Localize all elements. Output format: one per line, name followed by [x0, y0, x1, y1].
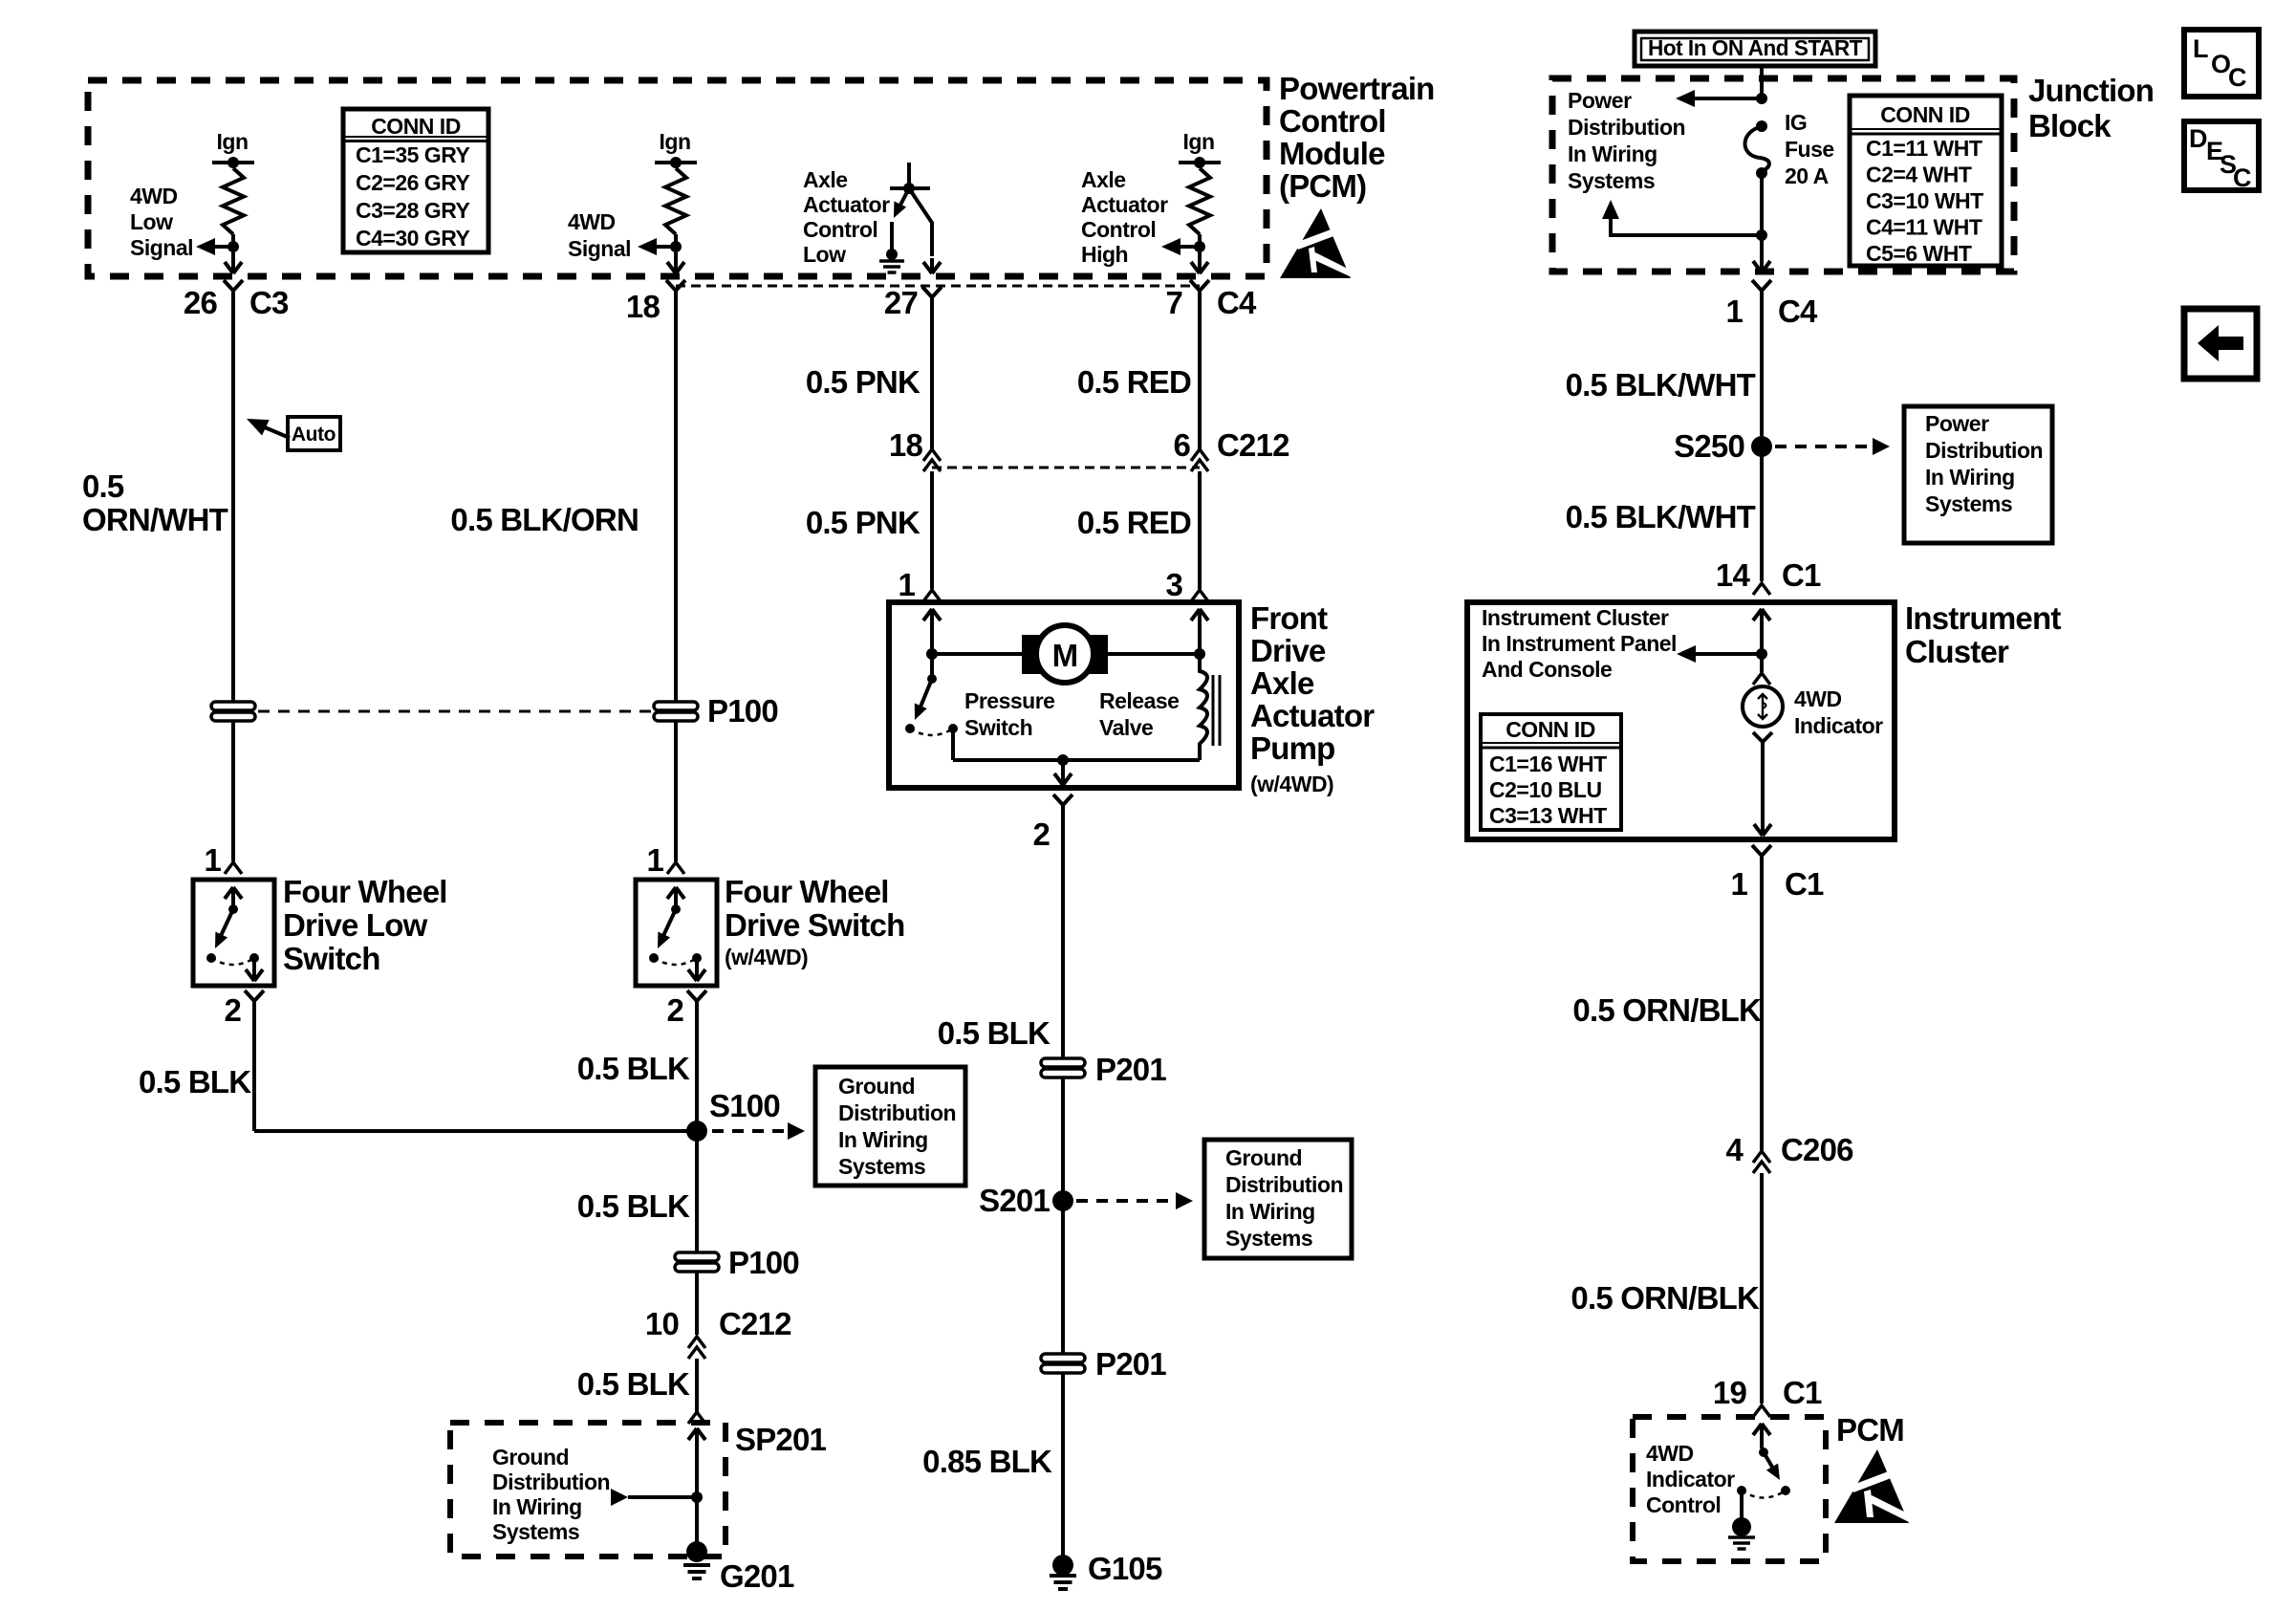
svg-text:0.5 BLK: 0.5 BLK	[577, 1188, 690, 1224]
Front Drive Axle Actuator Pump box	[889, 602, 1239, 788]
svg-text:Distribution: Distribution	[492, 1469, 610, 1494]
wire P201 to S201	[1061, 1078, 1065, 1195]
svg-text:0.5 BLK: 0.5 BLK	[577, 1366, 690, 1402]
svg-text:0.85 BLK: 0.85 BLK	[922, 1444, 1052, 1479]
wire 0.5 PNK (lower)	[930, 471, 934, 589]
svg-text:C3=13 WHT: C3=13 WHT	[1489, 803, 1607, 828]
svg-text:Instrument Cluster: Instrument Cluster	[1482, 605, 1669, 630]
svg-text:C2=26 GRY: C2=26 GRY	[356, 170, 469, 195]
svg-text:Four Wheel: Four Wheel	[725, 874, 889, 909]
junction lower dot	[1756, 229, 1767, 241]
svg-text:In Wiring: In Wiring	[1925, 465, 2015, 490]
grommet P100 (col1)	[211, 702, 255, 710]
svg-text:Distribution: Distribution	[1925, 438, 2043, 463]
svg-text:C3=10 WHT: C3=10 WHT	[1866, 188, 1983, 213]
svg-text:C: C	[2233, 163, 2252, 192]
svg-text:Block: Block	[2028, 108, 2112, 143]
svg-text:C4=11 WHT: C4=11 WHT	[1866, 215, 1982, 240]
svg-text:Systems: Systems	[1225, 1226, 1312, 1251]
driver Low: right leg	[909, 188, 932, 256]
svg-text:Ign: Ign	[1183, 129, 1215, 154]
svg-text:Four Wheel: Four Wheel	[283, 874, 447, 909]
Hot In ON And START box	[1635, 32, 1875, 66]
svg-text:3: 3	[1165, 567, 1182, 602]
SP201 dashed box	[450, 1423, 726, 1557]
svg-text:S250: S250	[1674, 428, 1744, 464]
svg-text:G105: G105	[1088, 1551, 1162, 1586]
connector chevron pin1 (pump)	[923, 590, 941, 601]
4wd switch: contact left dot	[649, 953, 659, 963]
motor M1 pump motor	[1022, 635, 1042, 674]
svg-text:Module: Module	[1279, 136, 1385, 171]
svg-text:Actuator: Actuator	[1250, 698, 1375, 733]
resistor 4WD Low Signal pull-up	[223, 168, 244, 234]
CONN ID table (PCM)	[343, 109, 488, 252]
svg-text:D: D	[2189, 124, 2208, 153]
pin 26 output arrow (col1)	[225, 252, 242, 273]
4wd switch: output arrow	[695, 958, 699, 975]
S250 dashed reference arrow	[1775, 445, 1869, 448]
svg-text:Instrument: Instrument	[1905, 600, 2061, 636]
DESC legend box	[2184, 121, 2259, 190]
svg-text:Actuator: Actuator	[1081, 192, 1168, 217]
driver Low: left leg	[890, 222, 894, 250]
node junction dot (col4)	[1194, 241, 1205, 252]
Ign rail (col4)	[1179, 161, 1221, 164]
lamp 4WD indicator	[1743, 686, 1783, 727]
svg-text:18: 18	[626, 289, 661, 324]
svg-text:Drive: Drive	[1250, 633, 1326, 668]
svg-text:1: 1	[1725, 294, 1743, 329]
S100 dashed reference arrow	[712, 1129, 786, 1133]
svg-text:1: 1	[204, 842, 221, 878]
svg-text:C: C	[2228, 63, 2247, 92]
connector pin 18 C4 female	[666, 280, 685, 299]
svg-text:Pump: Pump	[1250, 730, 1334, 766]
pressure switch: stem	[930, 654, 934, 679]
low switch: common dot	[228, 904, 238, 914]
svg-text:C5=6 WHT: C5=6 WHT	[1866, 241, 1972, 266]
connector chevron pin1 (4wd switch)	[667, 862, 684, 874]
svg-text:Fuse: Fuse	[1785, 137, 1834, 162]
4wd indicator control: common dot	[1759, 1448, 1768, 1457]
connector C212 chevrons (col4)	[1191, 449, 1208, 461]
svg-text:C206: C206	[1781, 1132, 1853, 1167]
driver Low: internal ground	[879, 259, 904, 263]
ground G105	[1052, 1555, 1073, 1576]
connector C212 chevrons (col2)	[688, 1337, 705, 1348]
svg-text:Systems: Systems	[1568, 168, 1655, 193]
wire col2 to switch	[674, 720, 678, 861]
SP201 reference arrow	[611, 1489, 628, 1506]
4wd switch: arm	[661, 909, 676, 940]
svg-text:C2=10 BLU: C2=10 BLU	[1489, 777, 1602, 802]
Ign rail (col1)	[212, 161, 254, 164]
svg-text:C212: C212	[1217, 427, 1289, 463]
low switch: output arrow	[252, 958, 256, 975]
svg-text:Drive Switch: Drive Switch	[725, 907, 904, 943]
svg-text:Signal: Signal	[130, 235, 193, 260]
svg-text:Switch: Switch	[964, 715, 1032, 740]
svg-text:Power: Power	[1568, 88, 1632, 113]
svg-text:4: 4	[1725, 1132, 1744, 1167]
svg-text:P100: P100	[728, 1245, 799, 1280]
svg-text:0.5 BLK: 0.5 BLK	[577, 1051, 690, 1086]
driver Low: crossbar	[890, 186, 930, 190]
wire 0.5 BLK (col2 lower)	[695, 1359, 699, 1412]
power distribution branch arrow	[1694, 97, 1762, 100]
wire 0.5 BLK (pump)	[1061, 814, 1065, 1058]
svg-text:26: 26	[184, 285, 218, 320]
connector pin 26 C3 female	[224, 280, 243, 299]
svg-text:Ground: Ground	[1225, 1145, 1302, 1170]
svg-text:Low: Low	[130, 209, 173, 234]
svg-text:Powertrain: Powertrain	[1279, 71, 1435, 106]
cluster entry arrow	[1753, 609, 1770, 620]
pin 27 output arrow	[923, 258, 941, 273]
fuse IG 20A	[1756, 120, 1767, 132]
wire 0.5 BLK (col1)	[252, 1010, 256, 1131]
svg-text:2: 2	[224, 992, 241, 1028]
cluster exit arrow	[1754, 824, 1771, 836]
grommet P100 (lower)	[675, 1252, 719, 1261]
4wd indicator control: ground stem	[1740, 1491, 1744, 1520]
svg-text:S100: S100	[709, 1088, 780, 1123]
svg-text:C3: C3	[249, 285, 289, 320]
connector chevron 19 C1	[1753, 1405, 1770, 1417]
svg-text:P201: P201	[1095, 1346, 1166, 1382]
ground (PCM internal)	[1728, 1535, 1755, 1539]
connector pin 2 female (low switch)	[245, 991, 264, 1010]
svg-text:CONN ID: CONN ID	[1505, 717, 1595, 742]
low switch: contact left dot	[206, 953, 216, 963]
pressure switch: right contact dot	[948, 724, 958, 733]
svg-text:Control: Control	[1279, 103, 1386, 139]
wire 0.5 BLK/WHT (upper)	[1760, 299, 1764, 436]
svg-text:Axle: Axle	[803, 167, 848, 192]
pin 7 output arrow	[1191, 252, 1208, 273]
svg-text:Control: Control	[803, 217, 877, 242]
svg-text:ORN/WHT: ORN/WHT	[82, 502, 228, 537]
pressure switch: arm	[919, 679, 932, 711]
low switch: input arrow	[225, 887, 242, 899]
4WD Signal branch arrow	[657, 245, 676, 249]
wire 0.5 RED (lower)	[1198, 471, 1202, 589]
connector chevron pin1 (low switch)	[225, 862, 242, 874]
release valve coil	[1200, 654, 1207, 760]
svg-text:In Wiring: In Wiring	[1568, 142, 1657, 166]
svg-text:7: 7	[1165, 285, 1182, 320]
wire 0.5 ORN/WHT (col1)	[231, 299, 235, 701]
driver Low: left leg arrow	[898, 188, 909, 210]
Four Wheel Drive Switch box	[636, 880, 717, 986]
release valve core bars	[1212, 675, 1215, 746]
svg-text:4WD: 4WD	[1794, 686, 1842, 711]
pressure switch: dashed arc	[910, 729, 953, 735]
pin 18 output arrow (col2)	[667, 252, 684, 273]
wire hot feed	[1760, 66, 1764, 98]
svg-text:0.5 PNK: 0.5 PNK	[806, 505, 921, 540]
wire 0.5 ORN/BLK (upper)	[1760, 864, 1764, 1150]
connector pin 1 C1 female (cluster)	[1752, 845, 1771, 864]
svg-text:0.5 BLK/WHT: 0.5 BLK/WHT	[1566, 499, 1756, 534]
4wd indicator control: dashed arc	[1742, 1491, 1786, 1498]
svg-text:Switch: Switch	[283, 941, 380, 976]
svg-text:Low: Low	[803, 242, 846, 267]
svg-text:0.5 RED: 0.5 RED	[1077, 364, 1191, 400]
node motor rail dots	[926, 648, 938, 660]
svg-text:0.5 BLK: 0.5 BLK	[938, 1015, 1051, 1051]
4wd indicator control: arm	[1764, 1452, 1776, 1473]
resistor Axle Actuator Control High	[1189, 168, 1210, 234]
svg-text:10: 10	[645, 1306, 679, 1341]
svg-text:Control: Control	[1081, 217, 1156, 242]
svg-text:C2=4 WHT: C2=4 WHT	[1866, 163, 1972, 187]
wire SP201 to G201	[695, 1497, 699, 1545]
svg-text:0.5 ORN/BLK: 0.5 ORN/BLK	[1572, 992, 1762, 1028]
svg-text:Control: Control	[1646, 1492, 1721, 1517]
wire col1 to S100	[254, 1129, 699, 1133]
connector pin 2 female (pump)	[1053, 795, 1072, 814]
pump pin2 exit arrow	[1061, 760, 1065, 776]
low switch: dashed throw arc	[211, 958, 254, 965]
4wd indicator control: left contact dot	[1737, 1486, 1746, 1495]
wire P100 to C212 (col2)	[695, 1272, 699, 1335]
node junction dot (col1)	[227, 241, 239, 252]
CONN ID table (junction block)	[1850, 96, 2002, 266]
SP201 entry arrow	[688, 1428, 705, 1440]
pump pin3 entry arrow	[1191, 609, 1208, 620]
svg-text:IG: IG	[1785, 110, 1807, 135]
svg-text:In Wiring: In Wiring	[838, 1127, 928, 1152]
svg-text:S201: S201	[979, 1183, 1050, 1218]
svg-text:M: M	[1052, 638, 1078, 673]
svg-text:0.5 PNK: 0.5 PNK	[806, 364, 921, 400]
svg-text:Signal: Signal	[568, 236, 631, 261]
4wd indicator control: entry arrow	[1753, 1424, 1770, 1435]
svg-text:0.5: 0.5	[82, 468, 124, 504]
connector SP201 chevron	[688, 1412, 705, 1424]
svg-text:(w/4WD): (w/4WD)	[1250, 772, 1333, 796]
lamp output female	[1753, 732, 1772, 742]
svg-text:1: 1	[1730, 866, 1747, 902]
svg-text:In Wiring: In Wiring	[492, 1494, 582, 1519]
svg-text:Systems: Systems	[492, 1519, 579, 1544]
svg-text:C1=11 WHT: C1=11 WHT	[1866, 136, 1982, 161]
svg-text:2: 2	[666, 992, 683, 1028]
grommet P201 (upper)	[1041, 1058, 1085, 1067]
svg-text:C4=30 GRY: C4=30 GRY	[356, 226, 469, 250]
svg-text:0.5 BLK: 0.5 BLK	[139, 1064, 251, 1099]
svg-text:19: 19	[1713, 1375, 1747, 1410]
svg-text:Pressure: Pressure	[964, 688, 1054, 713]
junction pin1 output arrow	[1760, 235, 1764, 269]
junction return branch	[1611, 218, 1762, 235]
grommet P201 (lower)	[1041, 1354, 1085, 1362]
connector C4 boundary dashed line	[676, 285, 1200, 288]
connector pin 7 C4 female	[1190, 280, 1209, 299]
svg-text:0.5 RED: 0.5 RED	[1077, 505, 1191, 540]
svg-text:P201: P201	[1095, 1052, 1166, 1087]
svg-text:C3=28 GRY: C3=28 GRY	[356, 198, 469, 223]
wire 0.5 PNK (upper)	[930, 306, 934, 449]
svg-text:0.5 ORN/BLK: 0.5 ORN/BLK	[1570, 1280, 1760, 1316]
connector chevron 14 C1	[1753, 583, 1770, 595]
wire fuse to pin1	[1760, 173, 1764, 235]
grommet P100 (col2)	[654, 702, 698, 710]
svg-text:Axle: Axle	[1081, 167, 1126, 192]
svg-text:In Wiring: In Wiring	[1225, 1199, 1315, 1224]
svg-text:C1: C1	[1783, 1375, 1822, 1410]
svg-text:C1=16 WHT: C1=16 WHT	[1489, 751, 1607, 776]
svg-text:C1: C1	[1785, 866, 1824, 902]
Axle Actuator Control High branch arrow	[1180, 245, 1200, 249]
connector pin 2 female (4wd switch)	[687, 991, 706, 1010]
svg-text:C4: C4	[1217, 285, 1257, 320]
connector pin 1 C4 female (junction)	[1752, 280, 1771, 299]
svg-text:C1: C1	[1782, 557, 1821, 593]
4WD Low Signal branch arrow	[214, 245, 233, 249]
svg-text:14: 14	[1716, 557, 1751, 593]
wire col1 to switch	[231, 720, 235, 861]
svg-text:Indicator: Indicator	[1794, 713, 1883, 738]
S201 dashed reference arrow	[1076, 1199, 1172, 1203]
driver Low: top stub	[907, 163, 911, 188]
svg-text:27: 27	[884, 285, 918, 320]
connector C212 boundary dashed	[932, 467, 1200, 469]
svg-text:C1=35 GRY: C1=35 GRY	[356, 142, 469, 167]
svg-text:Ign: Ign	[217, 129, 249, 154]
junction feed dot	[1756, 93, 1767, 104]
connector chevron pin3 (pump)	[1191, 590, 1208, 601]
back arrow legend box	[2184, 309, 2257, 379]
pump pin2 junction dot	[1057, 754, 1069, 766]
svg-text:Cluster: Cluster	[1905, 634, 2009, 669]
ESD sensitive symbol (bottom PCM)	[1834, 1449, 1909, 1523]
svg-text:18: 18	[889, 427, 923, 463]
svg-text:6: 6	[1173, 427, 1190, 463]
node junction dot (col2)	[670, 241, 682, 252]
svg-text:Ground: Ground	[838, 1074, 915, 1099]
wire 0.85 BLK	[1061, 1373, 1065, 1556]
svg-text:Ign: Ign	[660, 129, 691, 154]
splice S201	[1052, 1190, 1073, 1211]
svg-text:In Instrument Panel: In Instrument Panel	[1482, 631, 1677, 656]
resistor 4WD Signal pull-up	[665, 168, 686, 234]
svg-text:0.5 BLK/WHT: 0.5 BLK/WHT	[1566, 367, 1756, 403]
svg-text:(w/4WD): (w/4WD)	[725, 945, 808, 969]
svg-text:Axle: Axle	[1250, 665, 1314, 701]
splice S250	[1751, 436, 1772, 457]
4wd indicator control: ground dot	[1732, 1517, 1751, 1536]
wire 0.5 BLK/WHT (lower)	[1760, 446, 1764, 581]
wire motor rail	[932, 652, 1022, 656]
svg-text:C4: C4	[1778, 294, 1818, 329]
Auto callout box	[288, 417, 340, 450]
svg-text:2: 2	[1032, 816, 1050, 852]
wire 0.5 BLK/ORN (col2)	[674, 299, 678, 701]
wire 0.5 BLK (col2 mid)	[695, 1131, 699, 1252]
pump pin1 entry arrow	[923, 609, 941, 620]
low switch: arm	[219, 909, 233, 940]
wire resistor to node (col4)	[1198, 234, 1202, 247]
dashed link P100 grommets	[258, 710, 651, 713]
svg-text:Ground: Ground	[492, 1445, 569, 1469]
svg-text:CONN ID: CONN ID	[1880, 102, 1970, 127]
svg-text:0.5 BLK/ORN: 0.5 BLK/ORN	[450, 502, 639, 537]
LOC legend box	[2184, 30, 2259, 97]
svg-text:1: 1	[898, 567, 915, 602]
connector C212 chevrons (col3)	[923, 449, 941, 461]
SP201 junction dot	[691, 1491, 703, 1503]
svg-text:Power: Power	[1925, 411, 1989, 436]
wire S201 to P201	[1061, 1201, 1065, 1354]
Ground Distribution callout box (S201)	[1204, 1140, 1352, 1258]
svg-text:PCM: PCM	[1836, 1412, 1904, 1448]
svg-text:4WD: 4WD	[568, 209, 616, 234]
CONN ID table (cluster)	[1481, 714, 1621, 830]
cluster lamp feed chevron	[1760, 654, 1764, 672]
Junction Block dashed box	[1552, 78, 2014, 272]
Ign rail (col2)	[655, 161, 697, 164]
wire 0.5 BLK (col2 upper)	[695, 1010, 699, 1131]
Instrument Cluster box	[1467, 602, 1895, 839]
svg-text:Junction: Junction	[2028, 73, 2154, 108]
pressure switch: left contact dot	[905, 724, 915, 733]
Auto callout arrow	[265, 427, 290, 438]
svg-text:Systems: Systems	[838, 1154, 925, 1179]
ground G201	[686, 1541, 707, 1562]
svg-text:Valve: Valve	[1099, 715, 1153, 740]
wire resistor to node (col2)	[674, 234, 678, 247]
wire resistor to node (col1)	[231, 234, 235, 247]
ESD sensitive symbol (PCM)	[1280, 208, 1351, 278]
4wd switch: contact right dot	[692, 953, 702, 963]
svg-text:SP201: SP201	[735, 1422, 827, 1457]
svg-text:C212: C212	[719, 1306, 791, 1341]
PCM dashed box (bottom)	[1633, 1417, 1826, 1561]
connector C206 chevrons	[1753, 1151, 1770, 1163]
svg-text:Indicator: Indicator	[1646, 1467, 1735, 1491]
Four Wheel Drive Low Switch box	[193, 880, 274, 986]
4wd switch: common dot	[671, 904, 681, 914]
svg-text:Release: Release	[1099, 688, 1179, 713]
svg-text:Auto: Auto	[292, 424, 336, 446]
connector pin 27 C4 female	[922, 287, 942, 306]
Power Distribution callout box (S250)	[1904, 406, 2052, 543]
wire 0.5 ORN/BLK (lower)	[1760, 1173, 1764, 1404]
svg-text:CONN ID: CONN ID	[371, 114, 461, 139]
svg-text:High: High	[1081, 242, 1128, 267]
4wd switch: input arrow	[667, 887, 684, 899]
wire 0.5 RED (upper)	[1198, 299, 1202, 449]
svg-text:4WD: 4WD	[130, 184, 178, 208]
svg-text:G201: G201	[720, 1558, 794, 1594]
cluster internal branch arrow	[1695, 652, 1762, 656]
svg-text:1: 1	[646, 842, 663, 878]
svg-text:Distribution: Distribution	[1568, 115, 1685, 140]
PCM module dashed box	[88, 80, 1267, 276]
cluster junction dot	[1756, 648, 1767, 660]
4wd indicator control: right contact dot	[1781, 1486, 1790, 1495]
svg-text:And Console: And Console	[1482, 657, 1612, 682]
svg-text:Front: Front	[1250, 600, 1328, 636]
4wd switch: dashed throw arc	[654, 958, 697, 965]
svg-text:P100: P100	[707, 693, 778, 729]
svg-text:(PCM): (PCM)	[1279, 168, 1366, 204]
svg-text:Drive Low: Drive Low	[283, 907, 428, 943]
splice S100	[686, 1121, 707, 1142]
